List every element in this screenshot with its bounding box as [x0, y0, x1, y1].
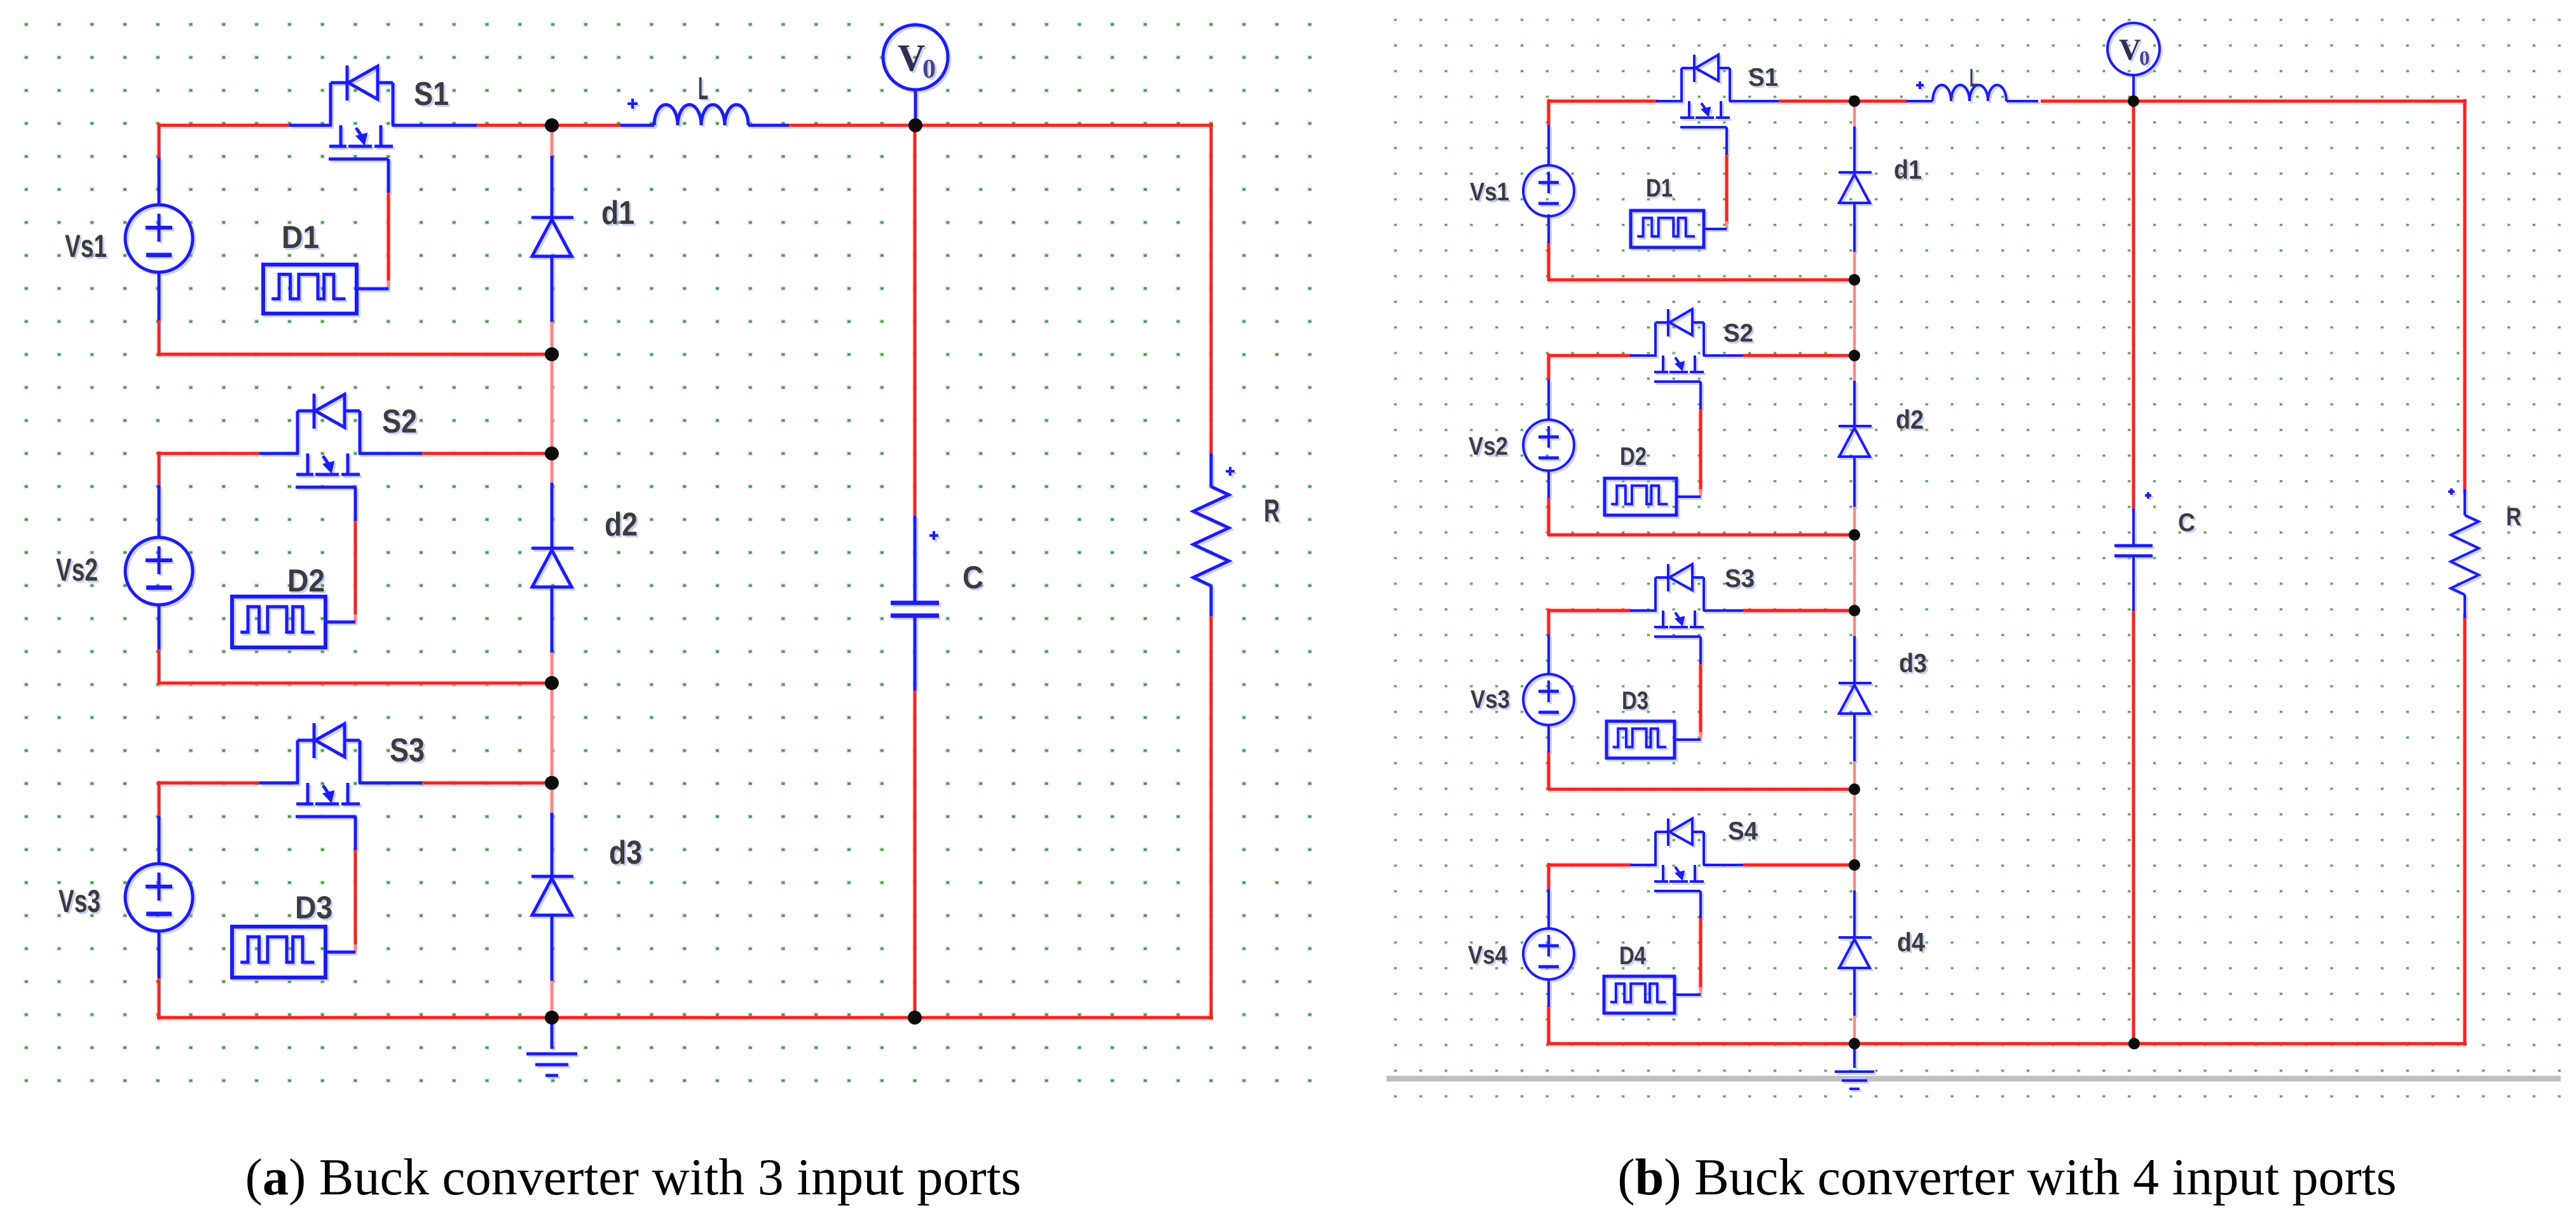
baseline rule under circuit (b) [1387, 1076, 2561, 1082]
svg-text:Vs1: Vs1 [1470, 178, 1509, 206]
svg-text:D2: D2 [1620, 443, 1647, 471]
wire [1703, 864, 1743, 866]
svg-text:Vs1: Vs1 [65, 228, 107, 264]
wire [1547, 214, 1550, 243]
wire [1547, 1042, 2467, 1046]
svg-text:d3: d3 [1899, 648, 1927, 678]
DC voltage source Vs2 [56, 537, 193, 605]
wire [551, 914, 554, 981]
node junction at (868,713) [545, 446, 559, 460]
node junction at (2917,1241) [1849, 784, 1860, 795]
wire [1853, 202, 1856, 252]
wire [1853, 127, 1856, 174]
wire [551, 783, 554, 814]
svg-text:D1: D1 [1646, 174, 1673, 202]
wire [359, 782, 422, 785]
gating block D1 (square-wave source) [263, 219, 388, 314]
gating block D2 (square-wave source) [232, 563, 355, 647]
wire [158, 319, 161, 356]
wire [551, 651, 554, 683]
wire [2132, 509, 2135, 546]
svg-text:V: V [2119, 33, 2141, 67]
wire [914, 689, 917, 1018]
svg-text:S4: S4 [1728, 817, 1758, 845]
wire [1547, 242, 1551, 281]
wire [1547, 863, 1551, 890]
wire [914, 125, 917, 517]
svg-text:d1: d1 [601, 195, 634, 231]
voltmeter V0 [883, 25, 948, 90]
wire [2132, 609, 2135, 1044]
wire [158, 158, 161, 206]
resistor R [2448, 488, 2521, 618]
svg-text:D1: D1 [282, 219, 319, 255]
DC voltage source Vs4 [1468, 929, 1574, 979]
wire [1549, 534, 1856, 537]
wire [1853, 357, 1856, 382]
node junction at (868,1074) [545, 676, 559, 690]
wire [1210, 123, 1213, 453]
wire [1549, 609, 1631, 612]
wire [1729, 100, 1779, 102]
svg-text:S3: S3 [1725, 565, 1755, 593]
node junction at (2917,440) [1849, 274, 1860, 286]
node junction at (868,1600) [545, 1011, 559, 1025]
node junction at (2917,1641) [1849, 1038, 1860, 1049]
wire [1547, 635, 1550, 675]
wire [354, 849, 357, 947]
diode d3 [1838, 648, 1927, 714]
wire [1725, 127, 1728, 155]
node junction at (2917,960) [1849, 605, 1860, 616]
gating block D4 (square-wave source) [1604, 942, 1701, 1013]
wire [914, 516, 917, 603]
svg-text:(b) Buck converter with 4 inpu: (b) Buck converter with 4 input ports [1617, 1148, 2396, 1206]
wire [1743, 864, 1856, 867]
wire [157, 1016, 1213, 1019]
wire [551, 483, 554, 549]
svg-text:L: L [698, 71, 708, 106]
svg-text:(a) Buck converter with 3 inpu: (a) Buck converter with 3 input ports [245, 1148, 1022, 1206]
wire [1853, 890, 1856, 939]
svg-text:Vs2: Vs2 [1469, 432, 1508, 460]
node junction at (868,197) [545, 118, 559, 132]
gating block D3 (square-wave source) [232, 890, 355, 978]
node junction at (2917,159) [1849, 95, 1860, 107]
node junction at (2917,841) [1849, 529, 1860, 541]
capacitor C [2114, 492, 2195, 556]
wire [1547, 724, 1550, 752]
wire [1725, 153, 1729, 224]
transistor S3 (MOSFET with body diode) [1654, 564, 1755, 637]
wire [1853, 712, 1856, 761]
wire [1549, 788, 1856, 791]
wire [359, 452, 422, 455]
node junction at (3357,1641) [2128, 1038, 2140, 1049]
svg-text:D4: D4 [1619, 942, 1647, 970]
wire [1853, 506, 1856, 535]
wire [1547, 609, 1551, 636]
wire [1853, 102, 1856, 128]
resistor R [1193, 453, 1280, 616]
svg-text:d1: d1 [1894, 155, 1922, 184]
wire [551, 453, 554, 483]
wire [1699, 637, 1702, 664]
node junction at (1439,1600) [908, 1011, 922, 1025]
wire [158, 977, 161, 1019]
wire [1547, 380, 1550, 421]
svg-text:d4: d4 [1897, 927, 1926, 957]
wire [1699, 891, 1702, 918]
wire [1853, 381, 1856, 427]
wire [1549, 864, 1631, 867]
ground [526, 1018, 577, 1075]
wire [354, 487, 357, 521]
wire [354, 520, 357, 617]
wire [2463, 99, 2467, 494]
wire [1703, 609, 1743, 612]
wire [1547, 469, 1550, 498]
svg-text:S2: S2 [1723, 319, 1753, 347]
wire [1630, 354, 1657, 357]
wire [551, 979, 554, 1018]
wire [354, 817, 357, 850]
gating block D2 (square-wave source) [1605, 443, 1701, 515]
wire [158, 123, 161, 159]
wire [259, 452, 299, 455]
wire [158, 271, 161, 321]
inductor L [1907, 64, 2038, 101]
wire [1853, 612, 1856, 637]
DC voltage source Vs3 [1470, 674, 1574, 725]
svg-text:C: C [2178, 509, 2195, 537]
transistor S1 (MOSFET with body diode) [329, 66, 449, 159]
wire [387, 159, 390, 193]
wire [1853, 967, 1856, 1016]
node junction at (868,557) [545, 347, 559, 361]
wire [1630, 609, 1657, 612]
wire [158, 452, 161, 487]
wire [1547, 751, 1551, 791]
wire [551, 156, 554, 219]
svg-text:R: R [1264, 493, 1280, 529]
node junction at (1440,197) [908, 118, 922, 132]
diode d1 [1838, 155, 1922, 203]
svg-text:D3: D3 [1622, 687, 1648, 715]
wire [1853, 251, 1856, 280]
svg-text:D2: D2 [287, 563, 325, 598]
wire [1547, 889, 1550, 930]
svg-text:R: R [2506, 503, 2521, 531]
svg-text:S1: S1 [1748, 64, 1778, 92]
svg-text:S1: S1 [414, 76, 449, 113]
wire [387, 280, 390, 288]
wire [1549, 279, 1856, 282]
svg-text:Vs3: Vs3 [58, 883, 100, 919]
wire [1547, 1005, 1551, 1045]
wire [2132, 556, 2135, 611]
diode d2 [1838, 404, 1924, 457]
wire [422, 452, 554, 455]
voltmeter V0 [2107, 23, 2160, 75]
wire [1656, 100, 1683, 102]
wire [354, 614, 357, 622]
wire [1547, 978, 1550, 1007]
diode d3 [531, 834, 642, 915]
DC voltage source Vs2 [1469, 420, 1574, 471]
wire [1779, 100, 1908, 103]
transistor S3 (MOSFET with body diode) [296, 723, 425, 817]
wire [422, 782, 554, 785]
svg-text:Vs4: Vs4 [1468, 941, 1508, 969]
wire [1699, 382, 1702, 409]
wire [1630, 864, 1657, 866]
svg-text:L: L [1970, 64, 1978, 92]
wire [551, 813, 554, 878]
wire [1853, 636, 1856, 684]
wire [158, 648, 161, 685]
transistor S1 (MOSFET with body diode) [1680, 55, 1778, 127]
wire [1699, 408, 1702, 492]
wire [1547, 354, 1551, 381]
wire [914, 89, 917, 127]
DC voltage source Vs1 [1470, 165, 1574, 216]
ground [1835, 1044, 1874, 1089]
wire [1549, 354, 1631, 357]
wire [392, 124, 477, 127]
wire [1853, 535, 1856, 611]
svg-text:Vs2: Vs2 [56, 552, 98, 588]
DC voltage source Vs1 [65, 205, 193, 272]
wire [1743, 609, 1856, 612]
svg-text:V: V [898, 37, 925, 79]
wire [1853, 280, 1856, 356]
wire [158, 604, 161, 649]
DC voltage source Vs3 [58, 864, 193, 931]
wire [1853, 789, 1856, 865]
svg-text:S2: S2 [382, 403, 417, 440]
wire [158, 816, 161, 865]
wire [551, 256, 554, 322]
wire [2132, 101, 2135, 510]
wire [2041, 100, 2467, 103]
wire [551, 586, 554, 653]
wire [551, 127, 554, 157]
svg-text:0: 0 [922, 55, 936, 84]
wire [354, 944, 357, 952]
svg-text:Vs3: Vs3 [1470, 686, 1510, 714]
wire [787, 124, 1213, 127]
wire [158, 930, 161, 978]
wire [1853, 1014, 1856, 1044]
wire [1547, 497, 1551, 536]
wire [159, 682, 554, 685]
node junction at (3356,159) [2128, 95, 2139, 107]
wire [1853, 866, 1856, 892]
transistor S2 (MOSFET with body diode) [296, 394, 417, 487]
wire [2132, 74, 2135, 102]
diode d4 [1838, 927, 1926, 968]
svg-text:0: 0 [2139, 47, 2150, 70]
wire [1743, 354, 1856, 357]
wire [1699, 987, 1702, 995]
wire [1699, 489, 1702, 497]
wire [158, 781, 161, 817]
wire [159, 353, 554, 356]
wire [159, 124, 289, 127]
wire [387, 191, 390, 283]
svg-text:C: C [963, 560, 983, 595]
node junction at (868,1231) [545, 776, 559, 790]
wire [477, 124, 622, 127]
svg-text:d3: d3 [609, 834, 642, 871]
wire [551, 321, 554, 354]
wire [158, 485, 161, 539]
wire [159, 452, 259, 455]
wire [1703, 354, 1743, 357]
wire [1699, 732, 1702, 740]
node junction at (2917,1360) [1849, 859, 1860, 871]
transistor S4 (MOSFET with body diode) [1654, 817, 1758, 891]
svg-text:d2: d2 [1896, 404, 1924, 434]
wire [289, 124, 332, 127]
inductor L [620, 71, 789, 125]
wire [1547, 125, 1550, 166]
gating block D1 (square-wave source) [1631, 174, 1727, 247]
diode d1 [531, 195, 634, 256]
node junction at (2917,559) [1849, 350, 1860, 361]
wire [551, 354, 554, 453]
wire [914, 616, 917, 691]
diode d2 [531, 506, 638, 587]
wire [1210, 616, 1213, 1019]
wire [1725, 221, 1728, 229]
svg-text:d2: d2 [605, 506, 638, 543]
wire [159, 782, 259, 785]
svg-text:D3: D3 [295, 890, 332, 925]
wire [259, 782, 299, 785]
wire [1853, 760, 1856, 789]
wire [1699, 663, 1702, 735]
capacitor C [891, 531, 983, 616]
gating block D3 (square-wave source) [1607, 687, 1701, 758]
wire [1549, 100, 1657, 103]
wire [551, 683, 554, 783]
svg-text:S3: S3 [390, 732, 425, 769]
wire [1699, 917, 1702, 990]
wire [2463, 614, 2467, 1046]
wire [1853, 455, 1856, 507]
wire [1547, 99, 1551, 127]
transistor S2 (MOSFET with body diode) [1654, 309, 1753, 382]
